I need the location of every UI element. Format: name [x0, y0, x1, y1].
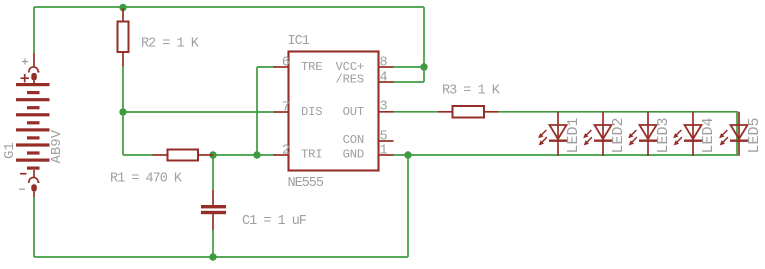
wire TRE down to TRI [256, 67, 258, 155]
pin 1 stub [379, 154, 394, 156]
svg-text:C1 = 1 uF: C1 = 1 uF [242, 214, 307, 229]
wire TRI pin 2 [213, 154, 276, 156]
wire LED top rail [499, 111, 739, 113]
wire TRE pin 6 [257, 66, 276, 68]
svg-text:NE555: NE555 [288, 176, 324, 191]
wire pin 8 to riser [393, 66, 424, 68]
svg-text:TRE: TRE [301, 60, 322, 74]
resistor R2 [118, 8, 129, 67]
wire C1 top [212, 155, 214, 190]
LED2 [584, 112, 612, 156]
svg-text:LED3: LED3 [655, 117, 672, 153]
battery G1 [16, 53, 50, 197]
svg-text:LED4: LED4 [700, 117, 717, 153]
svg-text:4: 4 [380, 71, 388, 86]
svg-text:OUT: OUT [343, 105, 364, 119]
battery plus mark red [21, 74, 30, 82]
battery top post [31, 73, 37, 80]
svg-text:LED5: LED5 [746, 117, 763, 153]
wire DIS junction down [122, 112, 124, 155]
svg-text:2: 2 [282, 144, 290, 159]
op-amp U1 : IC1 NE555 body [289, 52, 379, 171]
node junction GND riser [404, 151, 411, 158]
wire C1 bottom [212, 230, 214, 257]
svg-text:/RES: /RES [336, 73, 364, 87]
pin 2 stub [274, 154, 289, 156]
battery plus mark gray [22, 59, 28, 65]
node junction pin8 riser [420, 63, 427, 70]
wire pin 4 to riser [393, 81, 424, 83]
LED5 [720, 112, 748, 156]
wire bottom rail GND [34, 256, 408, 258]
svg-text:LED1: LED1 [565, 117, 582, 153]
wire right edge vertical [736, 112, 738, 156]
wire GND riser [407, 155, 409, 257]
svg-text:IC1: IC1 [288, 34, 310, 49]
svg-text:CON: CON [343, 133, 364, 147]
battery bottom pin [33, 192, 35, 198]
battery top pin [33, 53, 35, 67]
svg-text:8: 8 [380, 56, 388, 71]
battery bottom stem [33, 170, 35, 178]
wire R2 to DIS junction [122, 67, 124, 113]
pin 4 stub [379, 81, 394, 83]
wire LED bottom rail [393, 154, 738, 156]
battery minus mark gray [19, 188, 25, 190]
LED3 [629, 112, 657, 156]
battery top clip arc [28, 67, 40, 72]
capacitor C1 [201, 190, 226, 230]
pin 6 stub [274, 66, 289, 68]
wire right riser to pins 8/4 [423, 7, 425, 82]
wire DIS pin 7 [123, 111, 276, 113]
wire battery plus riser [33, 7, 35, 53]
LED1 [539, 112, 567, 156]
node junction TRE-TRI [253, 151, 260, 158]
pin 5 stub [379, 140, 394, 142]
wire battery minus drop [33, 197, 35, 257]
svg-text:G1: G1 [2, 142, 18, 159]
svg-text:7: 7 [282, 101, 290, 116]
svg-text:R3 = 1 K: R3 = 1 K [442, 84, 501, 99]
svg-text:LED2: LED2 [610, 117, 627, 153]
svg-text:R1 = 470 K: R1 = 470 K [110, 172, 183, 187]
pin 7 stub [274, 111, 289, 113]
wire top rail VCC [34, 6, 424, 8]
node junction C1 bottom [209, 253, 216, 260]
svg-text:DIS: DIS [301, 105, 322, 119]
svg-text:1: 1 [380, 144, 388, 159]
node junction R2 top [119, 4, 126, 11]
svg-text:5: 5 [380, 130, 388, 145]
wire to R1 left [123, 154, 153, 156]
wire OUT to R3 [393, 111, 438, 113]
battery bottom clip arc [28, 177, 40, 182]
battery plates [16, 83, 50, 170]
svg-text:AB9V: AB9V [49, 129, 65, 163]
resistor R3 [438, 106, 499, 118]
LED4 [674, 112, 702, 156]
svg-text:3: 3 [380, 100, 388, 115]
svg-text:TRI: TRI [301, 148, 322, 162]
node junction DIS [119, 108, 126, 115]
battery minus mark red [20, 173, 27, 175]
node junction R1-C1 [209, 151, 216, 158]
resistor R1 [153, 150, 214, 161]
svg-text:GND: GND [343, 148, 364, 162]
pin 8 stub [379, 66, 394, 68]
svg-text:R2 = 1 K: R2 = 1 K [141, 37, 200, 52]
pin 3 stub [379, 111, 394, 113]
svg-text:6: 6 [282, 56, 290, 71]
battery bottom post [31, 184, 37, 191]
